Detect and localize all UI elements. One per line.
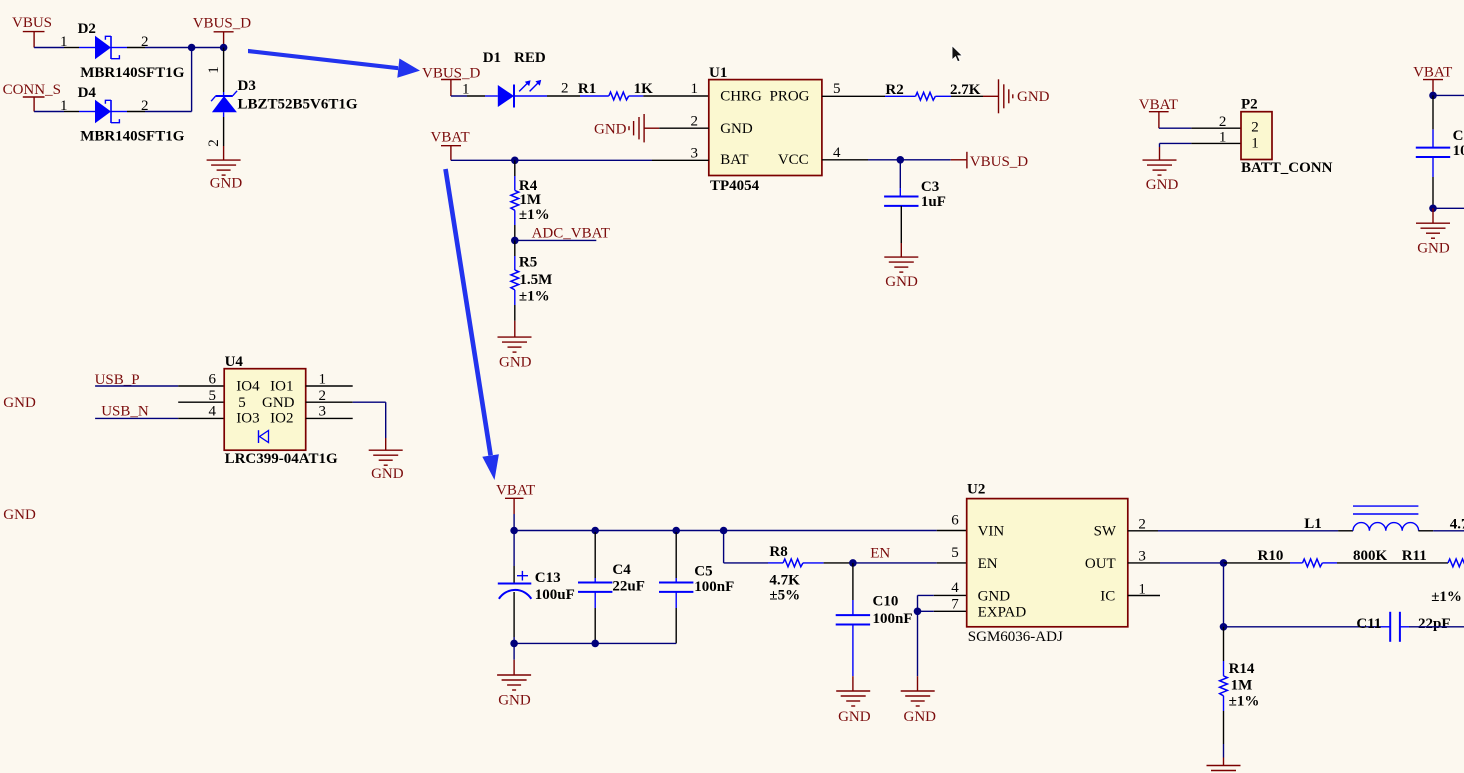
svg-text:IO2: IO2: [270, 411, 293, 427]
pin 1 stub of U4: [306, 385, 353, 387]
ground symbol below C3: [884, 257, 918, 272]
junction rail at C4: [591, 527, 599, 535]
wire CONN_S to D4 anode: [34, 111, 79, 113]
wire R1 to U1 pin 1: [643, 95, 709, 97]
pin 2 wire of D3: [223, 117, 225, 146]
svg-text:GND: GND: [978, 589, 1011, 605]
svg-text:3: 3: [691, 146, 699, 162]
power port VBAT at U1: [431, 130, 470, 161]
power port VBAT at P2: [1139, 97, 1178, 128]
wire R8 to EN node: [824, 562, 853, 564]
svg-text:GND: GND: [838, 709, 871, 725]
wire R2 to ground: [951, 95, 999, 97]
ground lead below C13: [513, 643, 515, 675]
wire node to R14: [1223, 627, 1225, 676]
svg-text:D2: D2: [78, 21, 96, 37]
wire VBAT to C1: [1432, 95, 1434, 147]
svg-text:1: 1: [60, 34, 68, 50]
svg-text:2: 2: [691, 114, 699, 130]
svg-text:1: 1: [691, 81, 699, 97]
power port CONN_S: [3, 82, 61, 112]
svg-text:4.7K: 4.7K: [769, 573, 800, 589]
junction C11: [1220, 623, 1228, 631]
junction VBAT / R4: [511, 157, 519, 165]
junction at VBUS_D node: [220, 44, 228, 52]
capacitor C10: [836, 615, 870, 624]
svg-text:D4: D4: [78, 85, 97, 101]
pin 1 wire of D3: [223, 48, 225, 93]
svg-text:1M: 1M: [519, 192, 541, 208]
svg-text:5: 5: [238, 395, 246, 411]
svg-text:BATT_CONN: BATT_CONN: [1241, 160, 1333, 176]
power port VBUS: [12, 15, 52, 48]
wire C1 bottom rail: [1433, 207, 1464, 209]
svg-text:IC: IC: [1100, 589, 1115, 605]
ground symbol below U2: [901, 691, 935, 706]
svg-text:7: 7: [951, 597, 959, 613]
svg-text:1uF: 1uF: [921, 194, 946, 210]
svg-text:GND: GND: [3, 507, 36, 523]
svg-text:VBAT: VBAT: [1413, 65, 1452, 81]
inductor L1: [1353, 506, 1419, 531]
svg-text:SW: SW: [1094, 524, 1117, 540]
svg-text:R5: R5: [519, 255, 537, 271]
svg-text:1: 1: [319, 372, 327, 388]
svg-text:VBUS_D: VBUS_D: [970, 154, 1029, 170]
svg-text:VBUS: VBUS: [12, 15, 52, 31]
svg-text:IO1: IO1: [270, 378, 293, 394]
svg-text:GND: GND: [1146, 177, 1179, 193]
wire ADC_VBAT stub: [515, 239, 597, 241]
svg-text:VBAT: VBAT: [496, 483, 535, 499]
wire EN node to C10: [852, 563, 854, 615]
svg-text:3: 3: [1138, 549, 1146, 565]
capacitor C4: [578, 532, 612, 643]
svg-text:RED: RED: [514, 50, 546, 66]
power port VBUS_D top: [193, 16, 252, 48]
resistor R4: [511, 190, 519, 210]
svg-text:VBAT: VBAT: [431, 130, 470, 146]
LED D1 light arrows: [519, 80, 541, 92]
svg-text:1: 1: [1219, 130, 1227, 146]
svg-text:EN: EN: [978, 556, 998, 572]
regulator U2 body: [967, 499, 1128, 627]
resistor R10: [1303, 559, 1323, 567]
svg-text:2: 2: [1138, 517, 1146, 533]
svg-text:EXPAD: EXPAD: [978, 605, 1027, 621]
wire VBAT to U1 pin 3: [451, 159, 709, 161]
ground symbol below C13: [497, 675, 531, 690]
ground lead of D3: [223, 146, 225, 160]
resistor R8: [768, 559, 824, 567]
ground symbol right: [1416, 223, 1450, 238]
svg-text:R10: R10: [1258, 548, 1284, 564]
wire junction to ground: [917, 611, 919, 691]
wire R10 to R11: [1322, 562, 1448, 564]
resistor R1: [580, 92, 643, 100]
junction rail at C5: [672, 527, 680, 535]
wire U1 pin 4 to VBUS_D: [822, 159, 967, 161]
svg-text:U2: U2: [967, 482, 985, 498]
svg-text:±1%: ±1%: [519, 207, 550, 223]
svg-text:C13: C13: [535, 570, 561, 586]
ground symbol below R5: [498, 337, 532, 352]
svg-text:GND: GND: [371, 466, 404, 482]
wire L1 to right edge: [1418, 530, 1464, 532]
svg-text:VIN: VIN: [978, 524, 1005, 540]
junction bottom rail at C13: [510, 640, 518, 648]
wire D2 cathode to node VBUS_D: [127, 47, 224, 49]
svg-text:GND: GND: [3, 395, 36, 411]
wire R4 to ADC_VBAT node: [514, 210, 516, 240]
svg-text:C1: C1: [1453, 128, 1464, 144]
svg-text:22uF: 22uF: [612, 579, 645, 595]
ground symbol below R14 (clipped): [1207, 766, 1241, 773]
svg-text:P2: P2: [1241, 96, 1258, 112]
svg-text:GND: GND: [499, 355, 532, 371]
wire node to C11: [1224, 626, 1391, 628]
svg-text:22pF: 22pF: [1418, 616, 1451, 632]
svg-text:±1%: ±1%: [1229, 693, 1260, 709]
svg-text:CHRG: CHRG: [720, 89, 762, 105]
junction C1 bottom: [1429, 205, 1437, 213]
transistor-array U4 body: [224, 369, 306, 451]
resistor R2: [885, 92, 951, 100]
diode D2 MBR140SFT1G: [79, 36, 127, 60]
svg-text:GND: GND: [498, 693, 531, 709]
wire U2 pin 7 EXPAD: [918, 610, 967, 612]
svg-text:1: 1: [1138, 582, 1146, 598]
wire C1 top rail: [1433, 94, 1464, 96]
svg-text:D3: D3: [238, 78, 256, 94]
svg-text:6: 6: [209, 372, 217, 388]
svg-text:L1: L1: [1304, 516, 1322, 532]
wire ground to U1 pin 2: [659, 127, 709, 129]
junction C1 top: [1429, 92, 1437, 100]
wire C3 to ground: [900, 206, 902, 257]
wire ground to P2 pin 1: [1160, 143, 1242, 160]
wire USB_N to U4 pin 4: [95, 417, 224, 419]
svg-text:R2: R2: [885, 82, 903, 98]
signal ground at R2: [999, 79, 1013, 113]
pin 5 stub of U4: [178, 401, 224, 403]
svg-text:SGM6036-ADJ: SGM6036-ADJ: [968, 629, 1063, 645]
capacitor C3: [884, 197, 918, 206]
svg-text:VBAT: VBAT: [1139, 97, 1178, 113]
svg-text:2: 2: [1219, 114, 1227, 130]
signal ground at U1 pin 2: [629, 114, 659, 142]
resistor R14: [1220, 676, 1228, 696]
pin 1 stub of U2: [1128, 595, 1160, 597]
wire U2 SW to L1: [1128, 530, 1353, 532]
svg-text:3: 3: [319, 404, 327, 420]
svg-text:USB_N: USB_N: [101, 404, 149, 420]
svg-text:2: 2: [1251, 120, 1259, 136]
annotation arrow 1 to VBUS_D: [248, 49, 420, 78]
svg-text:MBR140SFT1G: MBR140SFT1G: [80, 129, 185, 145]
wire C1 to ground: [1432, 157, 1434, 208]
wire R14 to ground: [1223, 696, 1225, 766]
svg-text:R8: R8: [769, 544, 787, 560]
svg-text:100nF: 100nF: [694, 579, 734, 595]
junction EN: [849, 559, 857, 567]
junction EXPAD/GND: [914, 608, 922, 616]
junction C3: [897, 156, 905, 164]
wire D4 cathode up to node: [127, 48, 192, 112]
wire U4 pin 2 to ground: [306, 402, 386, 450]
svg-text:D1: D1: [483, 50, 501, 66]
svg-text:GND: GND: [262, 395, 295, 411]
ground symbol below C10: [836, 691, 870, 706]
zener diode D3: [211, 91, 237, 117]
svg-text:1M: 1M: [1231, 678, 1253, 694]
wire C10 to ground: [852, 625, 854, 692]
junction rail at EN branch: [720, 527, 728, 535]
diode D4 MBR140SFT1G: [79, 100, 127, 124]
svg-text:PROG: PROG: [769, 89, 809, 105]
wire junction to C3: [899, 160, 901, 197]
svg-text:LBZT52B5V6T1G: LBZT52B5V6T1G: [238, 97, 358, 113]
ground symbol below D3: [207, 160, 241, 175]
ground symbol below U4: [369, 450, 403, 465]
svg-text:C3: C3: [921, 179, 939, 195]
wire EN branch down: [724, 531, 768, 563]
svg-text:R14: R14: [1229, 661, 1255, 677]
pin 3 stub of U4: [306, 417, 353, 419]
svg-text:MBR140SFT1G: MBR140SFT1G: [80, 65, 185, 81]
svg-text:IO3: IO3: [236, 411, 259, 427]
wire VBUS_D to D1 anode: [451, 95, 485, 97]
svg-text:GND: GND: [1017, 89, 1050, 105]
wire U1 pin 5 to R2: [822, 95, 885, 97]
capacitor C13 polarized: [498, 531, 532, 644]
svg-text:5: 5: [833, 81, 841, 97]
power port VBUS_D at D1: [422, 66, 481, 97]
wire bottom rail of caps: [514, 642, 676, 644]
svg-text:U4: U4: [225, 354, 244, 370]
junction at D2/D4 cathodes: [188, 44, 196, 52]
svg-text:2: 2: [206, 139, 222, 147]
svg-text:CONN_S: CONN_S: [3, 82, 61, 98]
svg-text:4: 4: [209, 404, 217, 420]
svg-text:GND: GND: [885, 274, 918, 290]
connector P2 body: [1241, 112, 1272, 160]
svg-text:4: 4: [951, 580, 959, 596]
power port VBAT right: [1413, 65, 1452, 96]
svg-text:100uF: 100uF: [1453, 143, 1464, 159]
svg-text:2: 2: [319, 388, 327, 404]
wire U2 OUT to node: [1128, 562, 1224, 564]
svg-text:C5: C5: [694, 564, 712, 580]
svg-text:1.5M: 1.5M: [519, 272, 552, 288]
svg-text:GND: GND: [904, 709, 937, 725]
svg-text:EN: EN: [870, 546, 890, 562]
junction rail at C13: [510, 527, 518, 535]
wire USB_P to U4 pin 6: [95, 385, 224, 387]
power port VBAT bottom: [496, 483, 535, 531]
svg-text:800K: 800K: [1353, 548, 1388, 564]
svg-text:100nF: 100nF: [873, 611, 913, 627]
wire VBAT rail to U2 VIN: [514, 530, 967, 532]
wire junction to R4: [514, 160, 516, 190]
wire D1 to R1: [547, 95, 580, 97]
resistor R11 (clipped): [1448, 559, 1464, 567]
svg-text:TP4054: TP4054: [710, 178, 760, 194]
wire VBUS to D2 anode: [34, 47, 79, 49]
wire R5 to ground: [514, 290, 516, 337]
junction OUT: [1220, 559, 1228, 567]
svg-text:IO4: IO4: [236, 378, 260, 394]
mouse cursor: [952, 46, 963, 62]
svg-text:1: 1: [206, 66, 222, 74]
net label port VBUS_D at U1 pin 4: [967, 152, 1028, 170]
wire OUT to R10: [1224, 562, 1303, 564]
wire OUT down to C11 node: [1223, 563, 1225, 627]
op-amp U1 body: [709, 80, 822, 176]
svg-text:C11: C11: [1356, 616, 1381, 632]
capacitor C11: [1390, 612, 1400, 642]
wire C11 to right edge: [1400, 626, 1464, 628]
svg-text:4: 4: [833, 145, 841, 161]
svg-text:VCC: VCC: [778, 152, 809, 168]
capacitor C5: [659, 532, 693, 643]
svg-text:R11: R11: [1402, 548, 1427, 564]
wire node to R5: [514, 240, 516, 270]
svg-text:±1%: ±1%: [1431, 589, 1462, 605]
resistor R5: [511, 270, 519, 290]
svg-text:1: 1: [462, 82, 470, 98]
svg-text:LRC399-04AT1G: LRC399-04AT1G: [225, 451, 338, 467]
svg-text:±1%: ±1%: [519, 288, 550, 304]
svg-text:5: 5: [951, 545, 959, 561]
capacitor C1: [1416, 148, 1450, 157]
svg-text:GND: GND: [594, 122, 627, 138]
svg-text:ADC_VBAT: ADC_VBAT: [532, 226, 610, 242]
svg-text:C10: C10: [873, 593, 899, 609]
svg-text:1: 1: [1251, 136, 1259, 152]
LED D1: [485, 85, 547, 108]
svg-text:BAT: BAT: [720, 152, 748, 168]
wire U2 pin 4 GND: [918, 595, 967, 611]
svg-text:R1: R1: [578, 81, 596, 97]
wire VBAT to P2 pin 2: [1159, 127, 1241, 129]
wire EN to U2 pin 5: [853, 562, 967, 564]
svg-text:2: 2: [561, 81, 569, 97]
junction bottom rail at C4: [591, 640, 599, 648]
svg-text:GND: GND: [720, 121, 753, 137]
svg-text:GND: GND: [1417, 241, 1450, 257]
ground symbol at P2: [1143, 160, 1177, 175]
svg-text:U1: U1: [709, 65, 727, 81]
svg-text:6: 6: [951, 513, 959, 529]
svg-text:1: 1: [60, 98, 68, 114]
svg-text:GND: GND: [210, 176, 243, 192]
junction ADC_VBAT: [511, 237, 519, 245]
svg-text:C4: C4: [612, 562, 631, 578]
svg-text:±5%: ±5%: [769, 587, 800, 603]
diode mark inside U4: [259, 430, 269, 443]
svg-text:VBUS_D: VBUS_D: [193, 16, 252, 32]
svg-text:100uF: 100uF: [535, 587, 575, 603]
ground lead C1: [1432, 208, 1434, 223]
svg-text:5: 5: [209, 388, 217, 404]
svg-text:OUT: OUT: [1085, 556, 1116, 572]
svg-text:2.7K: 2.7K: [950, 82, 981, 98]
svg-text:1K: 1K: [634, 81, 654, 97]
